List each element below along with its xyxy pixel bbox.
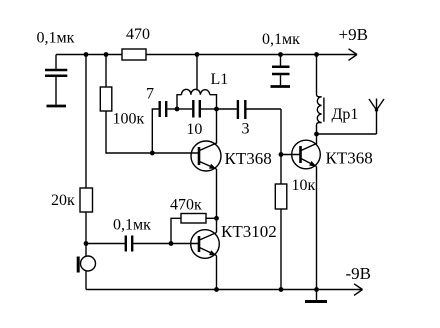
wire cap3 node down xyxy=(280,109,282,155)
svg-text:10: 10 xyxy=(186,121,202,138)
node junction antenna/collector xyxy=(314,132,319,137)
svg-text:L1: L1 xyxy=(211,71,229,88)
node junction mic/coupling cap xyxy=(84,241,89,246)
transistor Q1 КТ368 xyxy=(191,109,221,171)
inductor Др1 choke xyxy=(317,55,324,135)
capacitor 0,1мк (mic coupling) xyxy=(86,236,199,252)
wire top +9V rail left segment xyxy=(56,54,122,56)
node junction on rail x=316.5 xyxy=(314,52,319,57)
svg-text:0,1мк: 0,1мк xyxy=(37,30,75,47)
transistor Q3 КТ3102 xyxy=(191,230,220,259)
svg-text:10к: 10к xyxy=(292,177,316,194)
capacitor C1 0,1мк (top-left decoupling) xyxy=(45,55,67,107)
-9V arrowhead xyxy=(354,284,363,296)
node tank left xyxy=(175,107,180,112)
svg-text:КТ368: КТ368 xyxy=(326,149,373,168)
wire Q3 emitter to bottom rail xyxy=(216,256,218,290)
svg-text:0,1мк: 0,1мк xyxy=(113,217,151,234)
svg-text:КТ368: КТ368 xyxy=(225,149,272,168)
svg-text:3: 3 xyxy=(242,121,250,138)
wire to antenna xyxy=(317,133,377,135)
wire Q2 emitter to bottom rail xyxy=(316,167,318,290)
svg-text:0,1мк: 0,1мк xyxy=(262,31,300,48)
svg-text:100к: 100к xyxy=(113,111,145,128)
inductor L1 xyxy=(177,55,217,110)
node tank right xyxy=(214,107,219,112)
node junction Q2 base / 10к xyxy=(279,152,284,157)
resistor 20к xyxy=(80,55,93,244)
capacitor 10 xyxy=(177,100,217,118)
svg-text:Др1: Др1 xyxy=(332,106,359,123)
svg-text:КТ3102: КТ3102 xyxy=(221,222,277,241)
microphone xyxy=(78,244,95,290)
wire Q1 emitter to Q3 collector xyxy=(216,169,218,233)
node junction bottom rail x=316.5 xyxy=(314,287,319,292)
antenna xyxy=(369,99,384,135)
capacitor C4 0,1мк (top-right decoupling) xyxy=(271,55,291,87)
capacitor 3 xyxy=(217,100,282,119)
resistor 10к xyxy=(275,155,287,290)
svg-text:470к: 470к xyxy=(170,197,202,214)
node junction base wire / C7 x=152 xyxy=(150,151,155,156)
svg-text:-9В: -9В xyxy=(346,264,372,283)
node junction on rail x=197 xyxy=(195,52,200,57)
ground xyxy=(305,290,327,302)
resistor 100к xyxy=(100,55,199,154)
node junction on rail x=280.5 xyxy=(278,52,283,57)
node junction base КТ3102 xyxy=(169,241,174,246)
resistor 470к xyxy=(171,214,217,244)
svg-text:470: 470 xyxy=(126,26,150,43)
resistor 470 (series in rail) xyxy=(122,49,146,60)
node junction bottom rail x=216.5 xyxy=(214,287,219,292)
transistor Q2 КТ368 xyxy=(292,134,321,169)
svg-text:+9В: +9В xyxy=(339,25,368,44)
wire Q2 base xyxy=(281,154,301,156)
svg-text:7: 7 xyxy=(146,86,154,103)
wire bottom -9V rail xyxy=(86,289,363,291)
svg-text:20к: 20к xyxy=(51,192,75,209)
node junction on rail x=106 xyxy=(104,52,109,57)
+9V arrowhead xyxy=(349,49,358,61)
capacitor 7 xyxy=(152,101,177,153)
wire top +9V rail right segment xyxy=(146,54,357,56)
node junction bottom rail x=281 xyxy=(279,287,284,292)
node junction 470к/emitter xyxy=(214,216,219,221)
node junction on rail x=86 xyxy=(84,52,89,57)
